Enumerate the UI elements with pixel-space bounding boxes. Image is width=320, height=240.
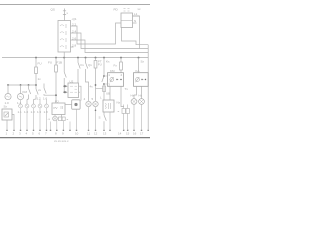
svg-text:10: 10 (75, 132, 79, 136)
svg-text:4: 4 (26, 132, 28, 136)
junction under lamp HL2 (95, 110, 97, 112)
svg-text:S: S (99, 116, 101, 120)
pushbutton inner (4, 112, 9, 117)
block pin stubs (71, 26, 74, 47)
fuse FU2 body (55, 65, 58, 72)
wire FU4 down (120, 70, 122, 73)
svg-text:16: 16 (133, 132, 137, 136)
SSR input branch dots (63, 85, 65, 93)
lamp HR cross (140, 100, 144, 104)
drop x85 with contact (86, 58, 89, 102)
meter box PV (52, 103, 65, 115)
relay KM pins (117, 79, 123, 81)
SSR U1 box (68, 83, 79, 98)
svg-text:Fx: Fx (81, 63, 85, 67)
svg-text:FT: FT (98, 60, 102, 64)
wire FU3 down (95, 68, 97, 101)
lamp HR feed (141, 86, 143, 98)
fuse FU1 drop (35, 58, 37, 67)
x110 wire to dot (109, 112, 111, 129)
stubs to terminals under PV (51, 121, 71, 129)
PV bottom pin left (54, 115, 56, 117)
bus junction dots (35, 57, 139, 59)
svg-text:PV: PV (54, 106, 58, 110)
svg-text:Hx: Hx (139, 94, 143, 98)
x104 link to KM box (104, 76, 108, 84)
bottom terminal dots (6, 129, 149, 131)
svg-text:1.3: 1.3 (31, 110, 36, 114)
contact K1 (27, 85, 31, 104)
SSR internals (70, 86, 77, 92)
svg-text:KM: KM (23, 90, 28, 94)
transformer bottom switch (104, 112, 106, 129)
x104 dots (103, 75, 105, 85)
svg-text:Tx: Tx (125, 87, 129, 91)
svg-text:3: 3 (19, 132, 21, 136)
motor M1 (5, 94, 11, 100)
wire fuse2 down (55, 72, 57, 103)
svg-text:L: L (100, 96, 102, 100)
svg-text:Nx: Nx (117, 101, 121, 105)
contact S3 (44, 84, 56, 96)
svg-text:4: 4 (84, 97, 86, 101)
svg-text:QS: QS (51, 8, 55, 12)
fuse FU4 body (120, 62, 123, 70)
svg-text:-Q1: -Q1 (72, 17, 77, 21)
svg-text:xx.xx.xxx.x: xx.xx.xxx.x (54, 139, 69, 143)
wire bus to KA (138, 58, 140, 73)
wire block pin3 to right edge (74, 40, 149, 129)
svg-text:2.8: 2.8 (72, 43, 77, 47)
motor M1 squiggle (6, 96, 9, 97)
relay KA box (134, 73, 149, 87)
svg-text:1x: 1x (38, 77, 42, 81)
SSR right pins (79, 86, 82, 100)
svg-text:1: 1 (6, 132, 8, 136)
KM bottom wire down (109, 99, 111, 101)
svg-text:1.5: 1.5 (37, 110, 42, 114)
motor M2 (17, 94, 23, 100)
svg-text:UB: UB (106, 92, 110, 96)
lamp HG feed (134, 86, 137, 98)
terminal upper stubs (21, 100, 47, 105)
lamp HR (139, 99, 145, 105)
svg-text:Fx: Fx (114, 64, 118, 68)
drop x78 with contact (78, 58, 80, 83)
svg-text:=: = (67, 117, 69, 121)
svg-text:PD: PD (114, 8, 119, 12)
svg-text:1.6: 1.6 (43, 97, 48, 101)
terminal circle row (19, 104, 49, 108)
motor M2 squiggle (19, 96, 22, 97)
lamp right stubs (134, 104, 142, 129)
svg-text:8: 8 (55, 132, 57, 136)
svg-text:7: 7 (45, 132, 47, 136)
lamp HG (131, 99, 137, 105)
svg-text:Sx: Sx (4, 105, 8, 109)
lamp HL1 (86, 101, 91, 106)
svg-text:Sx: Sx (141, 60, 145, 64)
svg-text:=: = (118, 110, 120, 114)
svg-text:1.2: 1.2 (37, 97, 42, 101)
svg-text:FU: FU (48, 61, 52, 65)
meter top ticks (124, 9, 130, 12)
relay KA pins (142, 79, 147, 81)
relay KA coil (136, 78, 140, 82)
svg-text:11: 11 (87, 132, 90, 136)
wire block pin1 to PD left (74, 23, 122, 44)
bottom border (0, 137, 150, 139)
transformer TC box (103, 100, 114, 112)
lamp HL1 cross (87, 102, 91, 106)
svg-text:17: 17 (140, 132, 144, 136)
fuse FU4 drop (120, 58, 122, 62)
node dot x95 (95, 84, 97, 86)
PD bottom pin route (122, 28, 149, 45)
terminal circle hatches (19, 105, 48, 108)
lamp stubs down (89, 107, 96, 129)
fuse FU3 body (94, 61, 97, 69)
fuse FU3 drop (95, 58, 97, 61)
terminal lower stubs (21, 108, 47, 129)
PV inner tick (61, 106, 63, 109)
lamp HL2 (93, 101, 98, 106)
fuse FU1 body (35, 67, 38, 74)
svg-text:F1B: F1B (57, 61, 63, 65)
svg-text:x: x (67, 11, 69, 15)
resistor pair under PV (59, 117, 62, 121)
fuse FU2 drop (55, 58, 57, 65)
svg-text:1.0: 1.0 (24, 110, 29, 114)
relay KM coil (110, 78, 114, 82)
svg-text:xx: xx (138, 7, 142, 11)
SSR U1 arrows (65, 85, 68, 94)
node dots (7, 84, 37, 86)
svg-text:1.8: 1.8 (44, 110, 49, 114)
wire block pin2 to PD right (74, 16, 149, 49)
pushbutton bottom pin (6, 120, 8, 129)
meter right pins (133, 16, 140, 23)
buzzer feed (65, 104, 72, 106)
terminal rect stubs (124, 105, 128, 130)
bottom tiny labels (6, 132, 144, 136)
drop x104 (102, 58, 104, 100)
KM box bottom pins (110, 86, 124, 106)
svg-text:15: 15 (126, 132, 130, 136)
svg-text:14: 14 (118, 132, 122, 136)
node tie line (8, 84, 36, 86)
svg-text:2: 2 (13, 132, 15, 136)
motor M1 lead (7, 85, 9, 93)
svg-text:1: 1 (108, 73, 110, 77)
breaker block internals (60, 24, 66, 49)
svg-text:1.1: 1.1 (18, 110, 23, 114)
svg-text:13: 13 (103, 132, 107, 136)
svg-text:9: 9 (62, 132, 64, 136)
meter box PD (121, 13, 133, 28)
lamp HL2 cross (94, 102, 98, 106)
PV bottom pin right (61, 115, 63, 118)
contact K2 (34, 89, 39, 104)
svg-text:Kx: Kx (106, 60, 110, 64)
meter box divider (121, 19, 133, 21)
buzzer bottom stub (76, 109, 78, 129)
thermal element on x104 (103, 86, 106, 92)
top border (0, 4, 150, 6)
lamp under PV (53, 116, 58, 121)
transformer TC inner (106, 103, 111, 109)
svg-text:2: 2 (121, 73, 123, 77)
pushbutton right pin (12, 115, 14, 130)
svg-text:L1: L1 (134, 12, 138, 16)
main bus L (2, 57, 148, 59)
svg-text:5: 5 (92, 97, 94, 101)
svg-text:-x: -x (48, 117, 51, 121)
buzzer dot (74, 103, 77, 106)
pushbutton box SB (2, 109, 12, 120)
SSR U1 input branch (64, 58, 66, 93)
breaker block QF1 (58, 21, 71, 53)
svg-text:5: 5 (32, 132, 34, 136)
svg-text:12: 12 (94, 132, 98, 136)
block bottom wire (63, 52, 65, 58)
motor M2 lead (20, 85, 22, 93)
svg-text:6: 6 (39, 132, 41, 136)
branch lamp line to x104 (96, 88, 103, 90)
svg-text:Qx: Qx (88, 63, 92, 67)
svg-text:xx: xx (38, 88, 42, 92)
disconnect QF symbol (63, 9, 66, 21)
svg-text:N: N (134, 19, 136, 23)
lamp HG cross (132, 100, 136, 104)
svg-text:4x: 4x (90, 85, 94, 89)
buzzer box (72, 100, 80, 109)
node dot f2 (55, 94, 57, 96)
relay KM box (108, 73, 124, 87)
lamp under PV cross (54, 117, 57, 120)
svg-text:FU: FU (38, 62, 42, 66)
wire fuse to node (35, 74, 37, 90)
